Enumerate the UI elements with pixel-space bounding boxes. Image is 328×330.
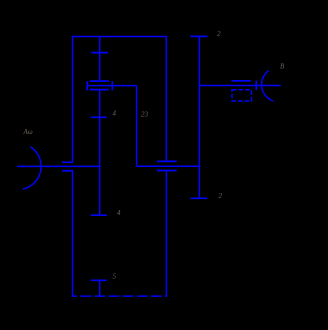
svg-text:B: B <box>280 63 285 71</box>
housing top edge <box>72 36 167 38</box>
housing right shaft upper segment <box>165 37 167 162</box>
central shaft upper section <box>99 37 101 82</box>
brake drum arc <box>262 71 274 101</box>
gear bar center lower <box>157 170 177 172</box>
clutch upper bar <box>90 80 109 82</box>
svg-text:Aω: Aω <box>23 128 33 136</box>
gear bar center upper <box>157 160 177 162</box>
brake pad dashed box <box>232 90 252 101</box>
gear tick z4 on central shaft <box>91 116 107 118</box>
right shaft bottom T bar <box>191 197 208 199</box>
right shaft top T bar <box>190 35 207 37</box>
gear bar left upper <box>62 161 73 163</box>
svg-text:2: 2 <box>217 30 221 38</box>
clutch right bracket <box>111 81 113 90</box>
housing right shaft lower segment <box>165 171 167 297</box>
svg-text:2: 2 <box>219 192 223 200</box>
input coupling arc <box>23 147 41 189</box>
svg-text:4: 4 <box>117 209 121 217</box>
brake shaft horizontal <box>199 85 280 87</box>
svg-text:5: 5 <box>113 273 117 281</box>
gear bar left lower <box>62 170 73 172</box>
bearing tick on central shaft <box>91 52 108 54</box>
lower coaxial shaft T bar <box>91 279 107 281</box>
housing bottom dashed line <box>72 295 167 297</box>
central shaft bottom T bar <box>91 214 107 216</box>
clutch middle line to elbow <box>87 85 136 87</box>
elbow vertical link <box>136 86 138 167</box>
brake shaft tick <box>255 81 257 91</box>
clutch left bracket <box>86 81 88 90</box>
central shaft middle section <box>99 90 101 216</box>
brake gear upper line <box>231 80 250 82</box>
right output shaft <box>198 36 200 198</box>
lower coaxial shaft stub <box>99 280 101 296</box>
housing left shaft lower segment <box>72 171 74 296</box>
svg-text:23: 23 <box>141 111 149 119</box>
clutch lower bar <box>90 89 109 91</box>
input shaft horizontal <box>17 165 100 167</box>
intermediate horizontal shaft to right shaft <box>137 165 200 167</box>
svg-text:4: 4 <box>113 110 117 118</box>
housing left shaft upper segment <box>72 37 74 163</box>
